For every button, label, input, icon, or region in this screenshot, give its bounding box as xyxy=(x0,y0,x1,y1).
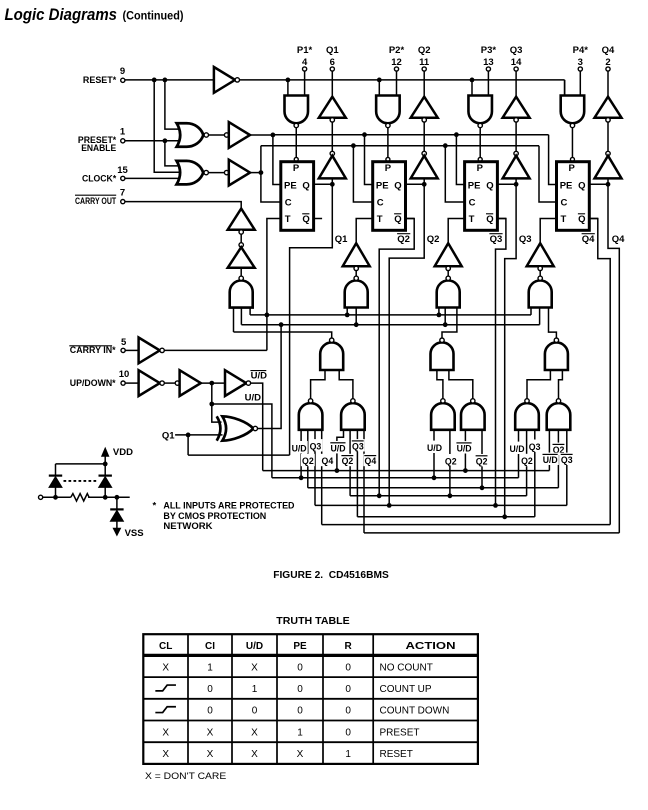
inverter lower Q1 (bubble above) xyxy=(330,151,334,155)
svg-text:Q2: Q2 xyxy=(342,456,354,466)
inverter upper Q2 (bubble below) xyxy=(411,97,438,118)
nand-gate decode stage 4 right (bubble on top) xyxy=(547,403,571,430)
table row COUNT DOWN xyxy=(155,707,176,713)
inverter toggle T3 (bubble below) xyxy=(435,243,462,266)
terminal RESET* xyxy=(121,78,125,82)
svg-text:7: 7 xyxy=(120,187,125,198)
wire st2R leg U/Dbar jog to busB1 xyxy=(337,430,344,471)
wire st4L leg Q3 to busB6 end xyxy=(534,430,536,517)
inverter carry B (bubble above) xyxy=(239,243,243,247)
svg-text:Q3: Q3 xyxy=(352,442,364,452)
wire protection top rail xyxy=(56,463,106,465)
wire Q4 inverter to Q junction xyxy=(607,178,609,184)
diode D3 (to VSS) xyxy=(110,508,123,510)
svg-text:Q2: Q2 xyxy=(397,234,410,245)
terminal CARRY IN xyxy=(121,348,125,352)
svg-text:6: 6 xyxy=(330,57,335,68)
wire CARRY IN to buffer xyxy=(125,349,138,351)
wire carry-in line xyxy=(164,349,267,351)
nand-gate G4 (preset data, output bubble) xyxy=(561,96,585,124)
svg-text:UP/DOWN*: UP/DOWN* xyxy=(70,378,116,389)
wire FF3 T input xyxy=(448,219,464,244)
label st4L Q2 xyxy=(520,454,534,466)
wire Q1 to XNOR xyxy=(175,434,222,436)
wire bus1 (toggle/carry) xyxy=(250,314,531,316)
inverter carry A (bubble below) xyxy=(228,209,255,230)
svg-text:P3*: P3* xyxy=(481,45,497,56)
svg-text:Q3: Q3 xyxy=(490,234,503,245)
terminal protection input xyxy=(39,495,43,499)
svg-text:1: 1 xyxy=(207,662,213,673)
wire rail drop stage 2 xyxy=(378,80,380,96)
svg-text:C: C xyxy=(561,198,568,209)
svg-text:2: 2 xyxy=(605,57,610,68)
label st2L Q3 xyxy=(309,439,323,451)
svg-text:CLOCK*: CLOCK* xyxy=(82,174,116,185)
svg-text:RESET*: RESET* xyxy=(83,75,117,86)
junction RESET-b xyxy=(163,78,168,83)
svg-text:U/D: U/D xyxy=(246,641,263,652)
terminal Q3 xyxy=(514,67,518,71)
svg-text:1: 1 xyxy=(297,727,303,738)
wire Q3 pin to inverter xyxy=(515,71,517,97)
svg-text:T: T xyxy=(561,214,567,225)
wire G4 to FF4 P input xyxy=(571,128,573,158)
svg-text:T: T xyxy=(377,214,383,225)
svg-text:0: 0 xyxy=(207,684,213,695)
svg-text:Q1: Q1 xyxy=(335,234,348,245)
terminal UP/DOWN xyxy=(121,381,125,385)
nand-gate decode stage 2 left (bubble on top) xyxy=(299,403,323,430)
svg-text:P: P xyxy=(293,163,300,174)
junction RESET rail stage 1 xyxy=(286,78,291,83)
svg-text:U/D: U/D xyxy=(543,455,558,465)
svg-text:Q4: Q4 xyxy=(612,234,625,245)
terminal P1* xyxy=(303,67,307,71)
junction C node stage1 xyxy=(259,170,264,175)
wire rail drop stage 3 xyxy=(471,80,473,96)
wire bus3 (stage2 mid NAND to carry NAND) xyxy=(234,332,332,338)
wire U/D branch down xyxy=(211,383,213,404)
wire toggle2 leg2 to bus2 xyxy=(355,308,357,325)
svg-text:Q2: Q2 xyxy=(418,45,431,56)
wire toggle inverter to NAND stage 4 xyxy=(539,271,541,276)
wire st3L leg Q2 to busB4 xyxy=(449,430,451,496)
svg-text:ENABLE: ENABLE xyxy=(81,143,116,154)
wire C drop stage 4 xyxy=(539,146,557,202)
svg-text:Q3: Q3 xyxy=(519,234,532,245)
wire Q4 pin to inverter xyxy=(607,71,609,97)
inverter upper Q4 (bubble below) xyxy=(595,97,622,118)
svg-text:T: T xyxy=(285,214,291,225)
wire st2L leg U/D to busB2 xyxy=(300,430,302,478)
svg-text:12: 12 xyxy=(391,57,402,68)
svg-text:Q: Q xyxy=(486,214,493,225)
wire carry NAND leg3 to bus1 xyxy=(249,308,251,315)
wire toggle3 leg3 to mid NAND3 output xyxy=(442,308,457,338)
nand-gate mid stage 3 (bubble on top) xyxy=(431,342,454,370)
svg-text:4: 4 xyxy=(302,57,308,68)
wire input to resistor xyxy=(43,496,71,498)
wire busB2 U/D xyxy=(272,477,519,479)
wire Q1 drop to XNOR region xyxy=(290,184,333,455)
wire st2R leg Q3bar to busB6 xyxy=(356,430,358,517)
svg-text:15: 15 xyxy=(117,165,128,176)
label st2R Q3bar xyxy=(351,439,365,451)
junction RESET rail stage 3 xyxy=(470,78,475,83)
svg-text:9: 9 xyxy=(120,66,125,77)
buffer U2 after OR1 (input bubble) xyxy=(224,133,228,137)
label st2R Q4bar xyxy=(363,454,377,466)
wire between Q2 inverters xyxy=(423,122,425,151)
svg-text:R: R xyxy=(344,641,352,652)
wire toggle3 leg2 to bus2 xyxy=(444,308,446,325)
nand-gate carry (3-input, bubble on top) xyxy=(230,281,253,308)
svg-text:Q4: Q4 xyxy=(602,45,615,56)
terminal P2* xyxy=(394,67,398,71)
wire PE drop stage 2 xyxy=(365,135,373,185)
junction Q3 xyxy=(514,182,519,187)
terminal Q1 xyxy=(330,67,334,71)
wire st4L leg U/D to busB2 end xyxy=(518,430,520,478)
junction RESET rail stage 2 xyxy=(377,78,382,83)
terminal PRESET xyxy=(121,139,125,143)
svg-text:X = DON'T CARE: X = DON'T CARE xyxy=(145,771,226,782)
wire Q1 link down xyxy=(187,435,189,455)
svg-text:X: X xyxy=(207,727,214,738)
junction Q1-XNOR xyxy=(186,433,191,438)
svg-text:14: 14 xyxy=(511,57,522,68)
wire busB6 xyxy=(357,516,534,518)
wire st4L leg Q2 to busB4 end xyxy=(526,430,528,496)
wire busB8 xyxy=(364,532,619,534)
wire rail drop stage 4 xyxy=(564,80,566,96)
junction C rail stage 2 xyxy=(351,143,356,148)
svg-text:U/D: U/D xyxy=(510,444,525,454)
svg-text:T: T xyxy=(469,214,475,225)
inverter upper Q1 (bubble below) xyxy=(319,97,346,118)
svg-text:Q2: Q2 xyxy=(476,456,488,466)
wire PRESET to OR2 top input xyxy=(165,141,179,166)
wire U/D buffers link xyxy=(164,382,175,384)
buffer U3 after OR2 (input bubble) xyxy=(224,170,228,174)
svg-text:X: X xyxy=(162,749,169,760)
svg-text:3: 3 xyxy=(578,57,583,68)
svg-text:Q: Q xyxy=(578,180,585,191)
wire toggle inverter to NAND stage 2 xyxy=(355,271,357,276)
svg-text:Q4: Q4 xyxy=(365,456,377,466)
wire Q1 inverter to Q junction xyxy=(331,178,333,184)
wire OR2 to buffer xyxy=(208,172,224,174)
svg-text:0: 0 xyxy=(345,684,351,695)
junction Q2 xyxy=(422,182,427,187)
junction C rail stage 3 xyxy=(443,143,448,148)
svg-text:Q: Q xyxy=(394,180,401,191)
nand-gate toggle stage 2 (bubble on top) xyxy=(345,281,368,308)
wire U/D line to drop xyxy=(212,404,272,478)
junction T1 on bus1 xyxy=(265,313,270,318)
wire st4R leg U/Dbar to busB1 end xyxy=(548,430,550,471)
wire Q1 pin to inverter xyxy=(331,71,333,97)
terminal P3* xyxy=(486,67,490,71)
wire FF4 Q output xyxy=(589,183,608,185)
svg-text:PE: PE xyxy=(293,641,307,652)
wire FF3 Q output xyxy=(497,183,516,185)
wire rail drop stage 1 xyxy=(287,80,289,96)
wire carry inverter to NAND xyxy=(240,268,242,276)
junction PE rail stage 2 xyxy=(362,132,367,137)
svg-text:(Continued): (Continued) xyxy=(123,11,184,23)
diode D1 (to VDD) xyxy=(49,475,62,477)
wire FF1 T input xyxy=(267,219,281,351)
svg-text:Q3: Q3 xyxy=(510,45,523,56)
svg-text:PRESET: PRESET xyxy=(380,727,420,738)
svg-text:NETWORK: NETWORK xyxy=(163,521,212,532)
svg-text:0: 0 xyxy=(345,727,351,738)
svg-text:COUNT UP: COUNT UP xyxy=(380,684,432,695)
wire mid4 leg2 to small NAND out xyxy=(559,370,563,399)
flip-flop FF2 xyxy=(373,162,406,231)
wire busB1 U/D-bar xyxy=(263,470,550,472)
wire mid2 leg2 to small NAND out xyxy=(339,370,353,399)
wire PE drop stage 4 xyxy=(549,135,557,185)
wire P1* to NAND xyxy=(304,71,306,95)
svg-text:Q: Q xyxy=(578,214,585,225)
nand-gate decode stage 3 left (bubble on top) xyxy=(431,403,455,430)
label st2R U/Dbar xyxy=(329,441,346,453)
buffer RESET (output bubble) xyxy=(214,67,235,93)
wire mid2 leg1 to small NAND out xyxy=(311,370,325,399)
svg-text:Q2: Q2 xyxy=(445,456,457,466)
junction U/D xyxy=(209,381,214,386)
svg-text:Q2: Q2 xyxy=(521,456,533,466)
wire right diode branch bottom xyxy=(104,487,106,497)
wire FF3 Qbar output xyxy=(498,218,506,220)
svg-text:0: 0 xyxy=(252,706,258,717)
svg-text:PE: PE xyxy=(560,180,573,191)
inverter lower Q2 (bubble above) xyxy=(422,151,426,155)
svg-text:PE: PE xyxy=(376,180,389,191)
svg-text:U/D: U/D xyxy=(427,443,442,453)
wire U/D to XNOR upper input xyxy=(212,404,222,422)
svg-text:P2*: P2* xyxy=(389,45,405,56)
svg-text:10: 10 xyxy=(119,369,130,380)
svg-text:P4*: P4* xyxy=(573,45,589,56)
wire toggle4 leg3 to mid NAND4 output xyxy=(549,308,557,338)
svg-text:TRUTH TABLE: TRUTH TABLE xyxy=(276,616,350,627)
wire FF2 Q output xyxy=(406,183,425,185)
svg-text:C: C xyxy=(377,198,384,209)
wire carry NAND leg2 to bus2 xyxy=(240,308,242,325)
svg-text:U/D: U/D xyxy=(331,443,346,453)
terminal CLOCK xyxy=(121,176,125,180)
wire mid3 leg1 to small NAND out xyxy=(437,370,443,399)
svg-text:Q2: Q2 xyxy=(427,234,440,245)
label st3L U/D xyxy=(426,441,443,453)
nor-gate OR1 (preset/reset) xyxy=(177,123,204,147)
wire U/D node xyxy=(201,382,225,384)
junction input node right xyxy=(103,495,108,500)
label st4R Q3bar xyxy=(560,453,574,465)
label st4L Q3 xyxy=(528,440,542,452)
svg-text:X: X xyxy=(162,662,169,673)
wire G1 to FF1 P input xyxy=(295,128,297,158)
diode D2 (to VDD) xyxy=(99,475,112,477)
wire FF1 Qbar stub xyxy=(314,218,322,220)
terminal P4* xyxy=(578,67,582,71)
svg-text:Q: Q xyxy=(394,214,401,225)
wire left diode branch bottom xyxy=(55,487,57,497)
wire toggle3 leg1 to bus1 xyxy=(438,308,440,315)
junction input node left xyxy=(53,495,58,500)
nand-gate toggle stage 3 (bubble on top) xyxy=(437,281,460,308)
resistor R1 xyxy=(71,494,89,501)
svg-text:COUNT DOWN: COUNT DOWN xyxy=(380,706,450,717)
svg-text:C: C xyxy=(285,198,292,209)
svg-text:CARRY OUT: CARRY OUT xyxy=(75,196,116,207)
wire toggle4 leg1 to bus1 end xyxy=(530,308,532,315)
svg-text:13: 13 xyxy=(483,57,494,68)
svg-text:X: X xyxy=(162,727,169,738)
wire G3 to FF3 P input xyxy=(479,128,481,158)
svg-text:0: 0 xyxy=(345,662,351,673)
wire st2L leg Q2 to busB3 xyxy=(307,430,309,488)
wire st4R leg Q2bar to busB3 end xyxy=(557,430,559,488)
wire VSS diode top xyxy=(116,497,118,509)
svg-text:Q1: Q1 xyxy=(326,45,339,56)
buffer carry-in (output bubble) xyxy=(139,338,160,364)
wire busB3 xyxy=(308,487,559,489)
junction RESET-a xyxy=(152,78,157,83)
svg-text:CL: CL xyxy=(159,641,172,652)
wire VDD arrow xyxy=(104,455,106,475)
svg-text:0: 0 xyxy=(207,706,213,717)
wire between Q3 inverters xyxy=(515,122,517,151)
wire PRESET input xyxy=(125,140,181,142)
label st3L Q2 xyxy=(444,454,458,466)
svg-text:1: 1 xyxy=(345,749,351,760)
wire PE rail xyxy=(273,134,549,136)
nand-gate decode stage 2 right (bubble on top) xyxy=(341,403,365,430)
svg-text:1: 1 xyxy=(120,127,126,138)
wire Q2 inverter to Q junction xyxy=(423,178,425,184)
svg-text:0: 0 xyxy=(345,706,351,717)
wire carry inverters link xyxy=(240,234,242,242)
wire busB0 Q1 link xyxy=(188,454,290,456)
wire busB5 xyxy=(315,504,567,506)
wire XNOR output to bus2 xyxy=(258,325,282,429)
svg-text:ACTION: ACTION xyxy=(406,641,456,652)
svg-text:Q3: Q3 xyxy=(310,442,322,452)
inverter toggle T4 (bubble below) xyxy=(527,243,554,266)
terminal CARRY OUT xyxy=(121,200,125,204)
buffer U/D 2 (input bubble) xyxy=(175,381,179,385)
table truth-table grid xyxy=(143,634,478,764)
svg-text:1: 1 xyxy=(252,684,258,695)
svg-text:X: X xyxy=(251,662,258,673)
label st2L Q4 xyxy=(320,454,334,466)
svg-text:P: P xyxy=(385,163,392,174)
wire st4R leg Q3bar to busB5 end xyxy=(566,430,568,506)
xnor-gate U/D-Q1 (output bubble) xyxy=(222,416,253,440)
svg-text:0: 0 xyxy=(297,706,303,717)
wire st2L leg Q3 to busB5 xyxy=(314,430,316,506)
flip-flop FF4 xyxy=(557,162,590,231)
wire st2R leg Q2bar to busB4 xyxy=(349,430,351,496)
svg-text:X: X xyxy=(251,727,258,738)
label st4R Q2bar xyxy=(552,443,566,455)
wire FF2 Qbar output xyxy=(406,218,414,220)
svg-text:X: X xyxy=(251,749,258,760)
wire Q2 drop xyxy=(389,184,424,505)
wire P3* to NAND xyxy=(487,71,489,95)
svg-text:5: 5 xyxy=(121,337,127,348)
svg-text:Q4: Q4 xyxy=(322,456,334,466)
wire C drop stage 1 xyxy=(261,173,281,202)
terminal Q2 xyxy=(422,67,426,71)
svg-text:Q: Q xyxy=(302,180,309,191)
wire between Q4 inverters xyxy=(607,122,609,151)
wire PE drop stage 1 xyxy=(273,135,281,185)
wire Q2 pin to inverter xyxy=(423,71,425,97)
svg-text:CARRY IN*: CARRY IN* xyxy=(70,345,116,356)
svg-text:Q: Q xyxy=(486,180,493,191)
wire dashed link between diodes xyxy=(64,480,99,482)
svg-text:PE: PE xyxy=(284,180,297,191)
nand-gate mid stage 4 (bubble on top) xyxy=(545,342,568,370)
nor-gate OR2 (clock gate) xyxy=(177,161,204,185)
wire busB7 xyxy=(322,524,611,526)
svg-text:Q3: Q3 xyxy=(529,442,541,452)
wire Q3bar drop xyxy=(496,219,506,506)
junction PRESET xyxy=(163,138,168,143)
wire CARRY OUT line xyxy=(125,202,241,209)
inverter upper Q3 (bubble below) xyxy=(503,97,530,118)
wire UP/DOWN to buffer1 xyxy=(125,382,138,384)
wire toggle4 leg2 to bus2 end xyxy=(539,308,541,325)
wire VSS diode bottom + arrow xyxy=(116,521,118,528)
wire C drop stage 2 xyxy=(353,146,372,202)
inverter lower Q3 (bubble above) xyxy=(514,151,518,155)
label st3R U/Dbar xyxy=(456,441,473,453)
svg-text:Q2: Q2 xyxy=(302,456,314,466)
nand-gate decode stage 3 right (bubble on top) xyxy=(461,403,485,430)
wire carry NAND leg1 to bus3 xyxy=(233,308,235,332)
nand-gate toggle stage 4 (bubble on top) xyxy=(529,281,552,308)
svg-text:ALL INPUTS ARE PROTECTED: ALL INPUTS ARE PROTECTED xyxy=(163,500,294,511)
svg-text:NO COUNT: NO COUNT xyxy=(380,662,433,673)
junction XNOR on bus2 xyxy=(279,322,284,327)
svg-text:0: 0 xyxy=(297,662,303,673)
wire RESET rail drop to NAND4 xyxy=(564,80,566,96)
svg-text:U/D: U/D xyxy=(245,393,262,404)
terminal Q4 xyxy=(606,67,610,71)
junction PE rail stage 3 xyxy=(454,132,459,137)
wire mid4 leg1 to small NAND out xyxy=(527,370,550,399)
nand-gate decode stage 4 left (bubble on top) xyxy=(515,403,539,430)
svg-text:PE: PE xyxy=(468,180,481,191)
wire toggle inverter to NAND stage 3 xyxy=(447,271,449,276)
svg-text:P: P xyxy=(569,163,576,174)
wire st3L leg U/D to busB2 xyxy=(433,430,435,478)
wire G2 to FF2 P input xyxy=(387,128,389,158)
wire bus2 (XNOR out) xyxy=(241,324,539,326)
wire st2L leg Q4 to busB7 xyxy=(321,430,323,525)
label st3R Q2bar xyxy=(475,454,489,466)
inverter lower Q4 (bubble above) xyxy=(606,151,610,155)
wire busB4 xyxy=(350,495,526,497)
svg-text:Q1: Q1 xyxy=(162,430,175,441)
